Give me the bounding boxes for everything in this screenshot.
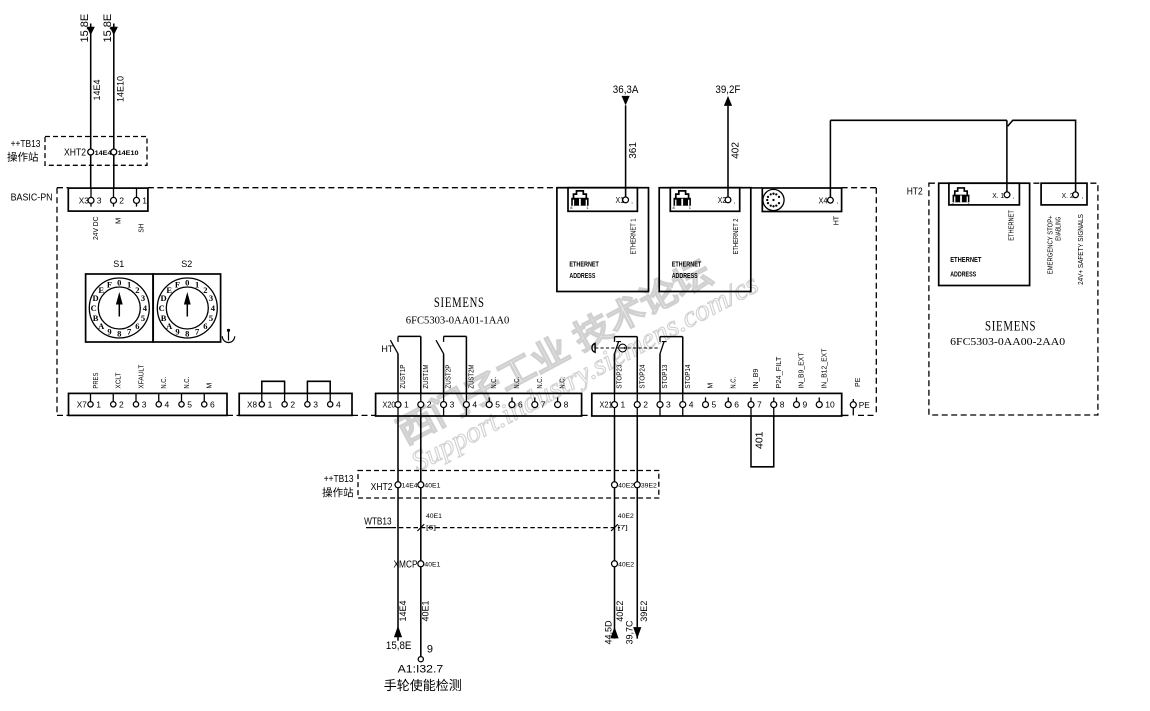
svg-text:PE: PE xyxy=(859,401,870,410)
svg-text:B: B xyxy=(93,313,99,323)
svg-text:IN_B9: IN_B9 xyxy=(753,369,760,389)
svg-text:M: M xyxy=(113,218,122,224)
svg-text:6: 6 xyxy=(203,321,207,331)
svg-text:.: . xyxy=(733,196,735,205)
svg-text:STOP23: STOP23 xyxy=(617,365,624,389)
svg-text:0: 0 xyxy=(117,277,121,287)
svg-text:ZUST1M: ZUST1M xyxy=(423,364,430,388)
svg-text:WTB13: WTB13 xyxy=(364,516,392,527)
svg-text:14E4: 14E4 xyxy=(95,150,112,157)
svg-text:44,5D: 44,5D xyxy=(604,620,614,645)
svg-text:SIEMENS: SIEMENS xyxy=(434,295,485,311)
svg-text:40E2: 40E2 xyxy=(618,482,634,489)
svg-text:15,8E: 15,8E xyxy=(386,640,412,652)
svg-text:X8: X8 xyxy=(247,400,258,409)
svg-text:M: M xyxy=(207,383,214,389)
svg-text:4: 4 xyxy=(472,400,477,410)
svg-text:9: 9 xyxy=(803,400,808,410)
svg-text:STOP14: STOP14 xyxy=(685,365,692,389)
svg-text:1: 1 xyxy=(142,195,147,205)
svg-text:X21: X21 xyxy=(600,401,614,410)
svg-text:1: 1 xyxy=(195,279,199,289)
svg-text:6: 6 xyxy=(734,400,739,410)
svg-text:SH: SH xyxy=(136,224,145,233)
svg-text:N.C.: N.C. xyxy=(161,377,168,389)
svg-text:A: A xyxy=(166,321,173,331)
svg-text:9: 9 xyxy=(175,327,179,337)
svg-text:XHT2: XHT2 xyxy=(64,148,86,159)
svg-text:3: 3 xyxy=(666,400,671,410)
svg-text:24V+ SAFETY SIGNALS: 24V+ SAFETY SIGNALS xyxy=(1078,214,1085,285)
svg-text:++TB13: ++TB13 xyxy=(324,474,354,485)
svg-text:[6]: [6] xyxy=(426,525,436,532)
svg-text:2: 2 xyxy=(643,400,648,410)
svg-text:ADDRESS: ADDRESS xyxy=(950,271,976,278)
svg-text:X. 1: X. 1 xyxy=(992,191,1004,200)
svg-text:SIEMENS: SIEMENS xyxy=(985,318,1036,334)
svg-text:7: 7 xyxy=(195,327,200,337)
svg-text:40E2: 40E2 xyxy=(618,562,634,569)
svg-text:40E1: 40E1 xyxy=(424,482,440,489)
svg-text:X4: X4 xyxy=(819,196,828,205)
svg-text:6: 6 xyxy=(210,399,215,409)
svg-text:.: . xyxy=(836,197,838,206)
svg-text:N.C.: N.C. xyxy=(184,377,191,389)
svg-text:C: C xyxy=(159,303,165,313)
svg-text:0: 0 xyxy=(185,277,189,287)
svg-text:ENABLING: ENABLING xyxy=(1055,217,1062,241)
svg-text:5: 5 xyxy=(495,400,500,410)
svg-text:N.C.: N.C. xyxy=(730,377,737,389)
svg-text:7: 7 xyxy=(541,400,546,410)
svg-text:操作站: 操作站 xyxy=(7,151,39,164)
svg-text:HT: HT xyxy=(381,344,393,354)
svg-text:ETHERNET 1: ETHERNET 1 xyxy=(631,218,638,254)
svg-text:PE: PE xyxy=(855,377,862,387)
svg-text:14E4: 14E4 xyxy=(398,600,408,621)
svg-text:ZUST2P: ZUST2P xyxy=(446,364,453,388)
svg-text:F: F xyxy=(107,279,112,289)
svg-text:36,3A: 36,3A xyxy=(613,84,639,96)
svg-text:7: 7 xyxy=(127,327,132,337)
svg-text:B: B xyxy=(161,313,167,323)
svg-text:5: 5 xyxy=(141,313,145,323)
svg-text:1: 1 xyxy=(268,399,273,409)
svg-text:操作站: 操作站 xyxy=(322,486,354,499)
svg-text:ADDRESS: ADDRESS xyxy=(569,273,595,280)
svg-text:ZUST1P: ZUST1P xyxy=(400,364,407,388)
svg-text:5: 5 xyxy=(187,399,192,409)
svg-text:1: 1 xyxy=(621,400,626,410)
svg-text:3: 3 xyxy=(97,195,102,205)
svg-text:2: 2 xyxy=(135,285,139,295)
svg-text:3: 3 xyxy=(450,400,455,410)
svg-text:2: 2 xyxy=(203,285,207,295)
svg-text:X20: X20 xyxy=(383,401,397,410)
svg-text:S1: S1 xyxy=(113,259,124,269)
svg-text:ETHERNET: ETHERNET xyxy=(672,261,702,268)
svg-text:HT2: HT2 xyxy=(907,186,923,197)
svg-text:ADDRESS: ADDRESS xyxy=(672,273,698,280)
svg-text:ETHERNET 2: ETHERNET 2 xyxy=(733,218,740,254)
svg-text:++TB13: ++TB13 xyxy=(11,139,41,150)
svg-text:14E4: 14E4 xyxy=(92,79,102,100)
svg-text:ETHERNET: ETHERNET xyxy=(950,257,982,264)
svg-text:X. 2: X. 2 xyxy=(1062,191,1074,200)
svg-text:8: 8 xyxy=(780,400,785,410)
svg-text:IN_B9_EXT: IN_B9_EXT xyxy=(799,352,806,389)
svg-text:1: 1 xyxy=(404,400,409,410)
svg-text:N.C.: N.C. xyxy=(514,377,521,389)
svg-text:X7: X7 xyxy=(77,400,88,409)
svg-text:402: 402 xyxy=(730,142,741,159)
svg-text:3: 3 xyxy=(313,399,318,409)
svg-text:6FC5303-0AA00-2AA0: 6FC5303-0AA00-2AA0 xyxy=(950,336,1065,348)
svg-text:4: 4 xyxy=(165,399,170,409)
svg-text:15,8E: 15,8E xyxy=(79,14,91,43)
svg-text:.: . xyxy=(1013,192,1015,201)
svg-text:8: 8 xyxy=(117,329,121,339)
svg-text:361: 361 xyxy=(628,142,639,159)
svg-text:4: 4 xyxy=(211,303,216,313)
svg-text:E: E xyxy=(98,285,104,295)
svg-text:STOP13: STOP13 xyxy=(662,365,669,389)
svg-text:STOP24: STOP24 xyxy=(639,365,646,389)
svg-text:XCLT: XCLT xyxy=(116,372,123,389)
svg-text:40E2: 40E2 xyxy=(615,601,625,622)
svg-text:9: 9 xyxy=(107,327,111,337)
svg-text:39,2F: 39,2F xyxy=(715,84,740,96)
svg-text:PRES: PRES xyxy=(93,372,100,388)
svg-text:IN_B12_EXT: IN_B12_EXT xyxy=(821,348,828,389)
svg-text:S2: S2 xyxy=(181,259,192,269)
svg-text:6: 6 xyxy=(135,321,139,331)
svg-text:40E1: 40E1 xyxy=(421,600,431,621)
svg-text:6: 6 xyxy=(518,400,523,410)
svg-text:5: 5 xyxy=(209,313,213,323)
svg-text:8: 8 xyxy=(564,400,569,410)
svg-text:39E2: 39E2 xyxy=(641,482,657,489)
svg-text:X3: X3 xyxy=(79,196,90,205)
svg-text:N.C.: N.C. xyxy=(491,377,498,389)
svg-text:14E10: 14E10 xyxy=(118,150,139,157)
svg-text:F: F xyxy=(175,279,180,289)
svg-text:ETHERNET: ETHERNET xyxy=(1009,210,1016,241)
svg-text:2: 2 xyxy=(119,195,124,205)
svg-text:9: 9 xyxy=(427,643,433,655)
svg-text:39E2: 39E2 xyxy=(639,601,649,622)
svg-text:4: 4 xyxy=(689,400,694,410)
svg-text:4: 4 xyxy=(143,303,148,313)
svg-text:N.C.: N.C. xyxy=(560,377,567,389)
svg-text:401: 401 xyxy=(753,431,765,449)
svg-text:40E1: 40E1 xyxy=(424,562,440,569)
svg-text:5: 5 xyxy=(712,400,717,410)
svg-text:C: C xyxy=(91,303,97,313)
svg-text:14E4: 14E4 xyxy=(402,482,418,489)
svg-text:39,7C: 39,7C xyxy=(625,620,635,645)
svg-text:1: 1 xyxy=(96,399,101,409)
svg-text:M: M xyxy=(708,383,715,389)
svg-text:14E10: 14E10 xyxy=(115,76,125,102)
svg-text:手轮使能检测: 手轮使能检测 xyxy=(384,678,462,693)
svg-text:A1:I32.7: A1:I32.7 xyxy=(398,664,444,676)
svg-text:1: 1 xyxy=(127,279,131,289)
svg-text:XFAULT: XFAULT xyxy=(138,364,145,389)
svg-text:XMCP: XMCP xyxy=(394,559,418,570)
svg-text:24V DC: 24V DC xyxy=(91,216,100,240)
svg-text:ETHERNET: ETHERNET xyxy=(569,261,599,268)
svg-text:4: 4 xyxy=(336,399,341,409)
svg-text:EMERGENCY STOP+: EMERGENCY STOP+ xyxy=(1047,215,1054,274)
svg-text:8: 8 xyxy=(185,329,189,339)
svg-text:E: E xyxy=(166,285,172,295)
svg-text:2: 2 xyxy=(119,399,124,409)
svg-text:15,8E: 15,8E xyxy=(102,14,114,43)
svg-text:.: . xyxy=(1082,192,1084,201)
svg-text:HT: HT xyxy=(833,215,840,225)
svg-text:10: 10 xyxy=(825,400,835,410)
svg-text:2: 2 xyxy=(290,399,295,409)
svg-text:.: . xyxy=(631,196,633,205)
svg-text:2: 2 xyxy=(427,400,432,410)
svg-text:A: A xyxy=(98,321,105,331)
svg-text:XHT2: XHT2 xyxy=(371,482,393,493)
svg-text:40E2: 40E2 xyxy=(618,513,634,520)
svg-text:N.C.: N.C. xyxy=(537,377,544,389)
svg-text:3: 3 xyxy=(141,293,145,303)
svg-text:3: 3 xyxy=(142,399,147,409)
svg-text:P24_FILT: P24_FILT xyxy=(776,356,783,389)
svg-text:[7]: [7] xyxy=(618,525,628,532)
svg-text:6FC5303-0AA01-1AA0: 6FC5303-0AA01-1AA0 xyxy=(406,315,510,327)
svg-text:ZUST2M: ZUST2M xyxy=(468,364,475,388)
svg-text:40E1: 40E1 xyxy=(426,513,442,520)
svg-text:7: 7 xyxy=(757,400,762,410)
svg-text:3: 3 xyxy=(209,293,213,303)
svg-text:BASIC-PN: BASIC-PN xyxy=(11,193,53,204)
